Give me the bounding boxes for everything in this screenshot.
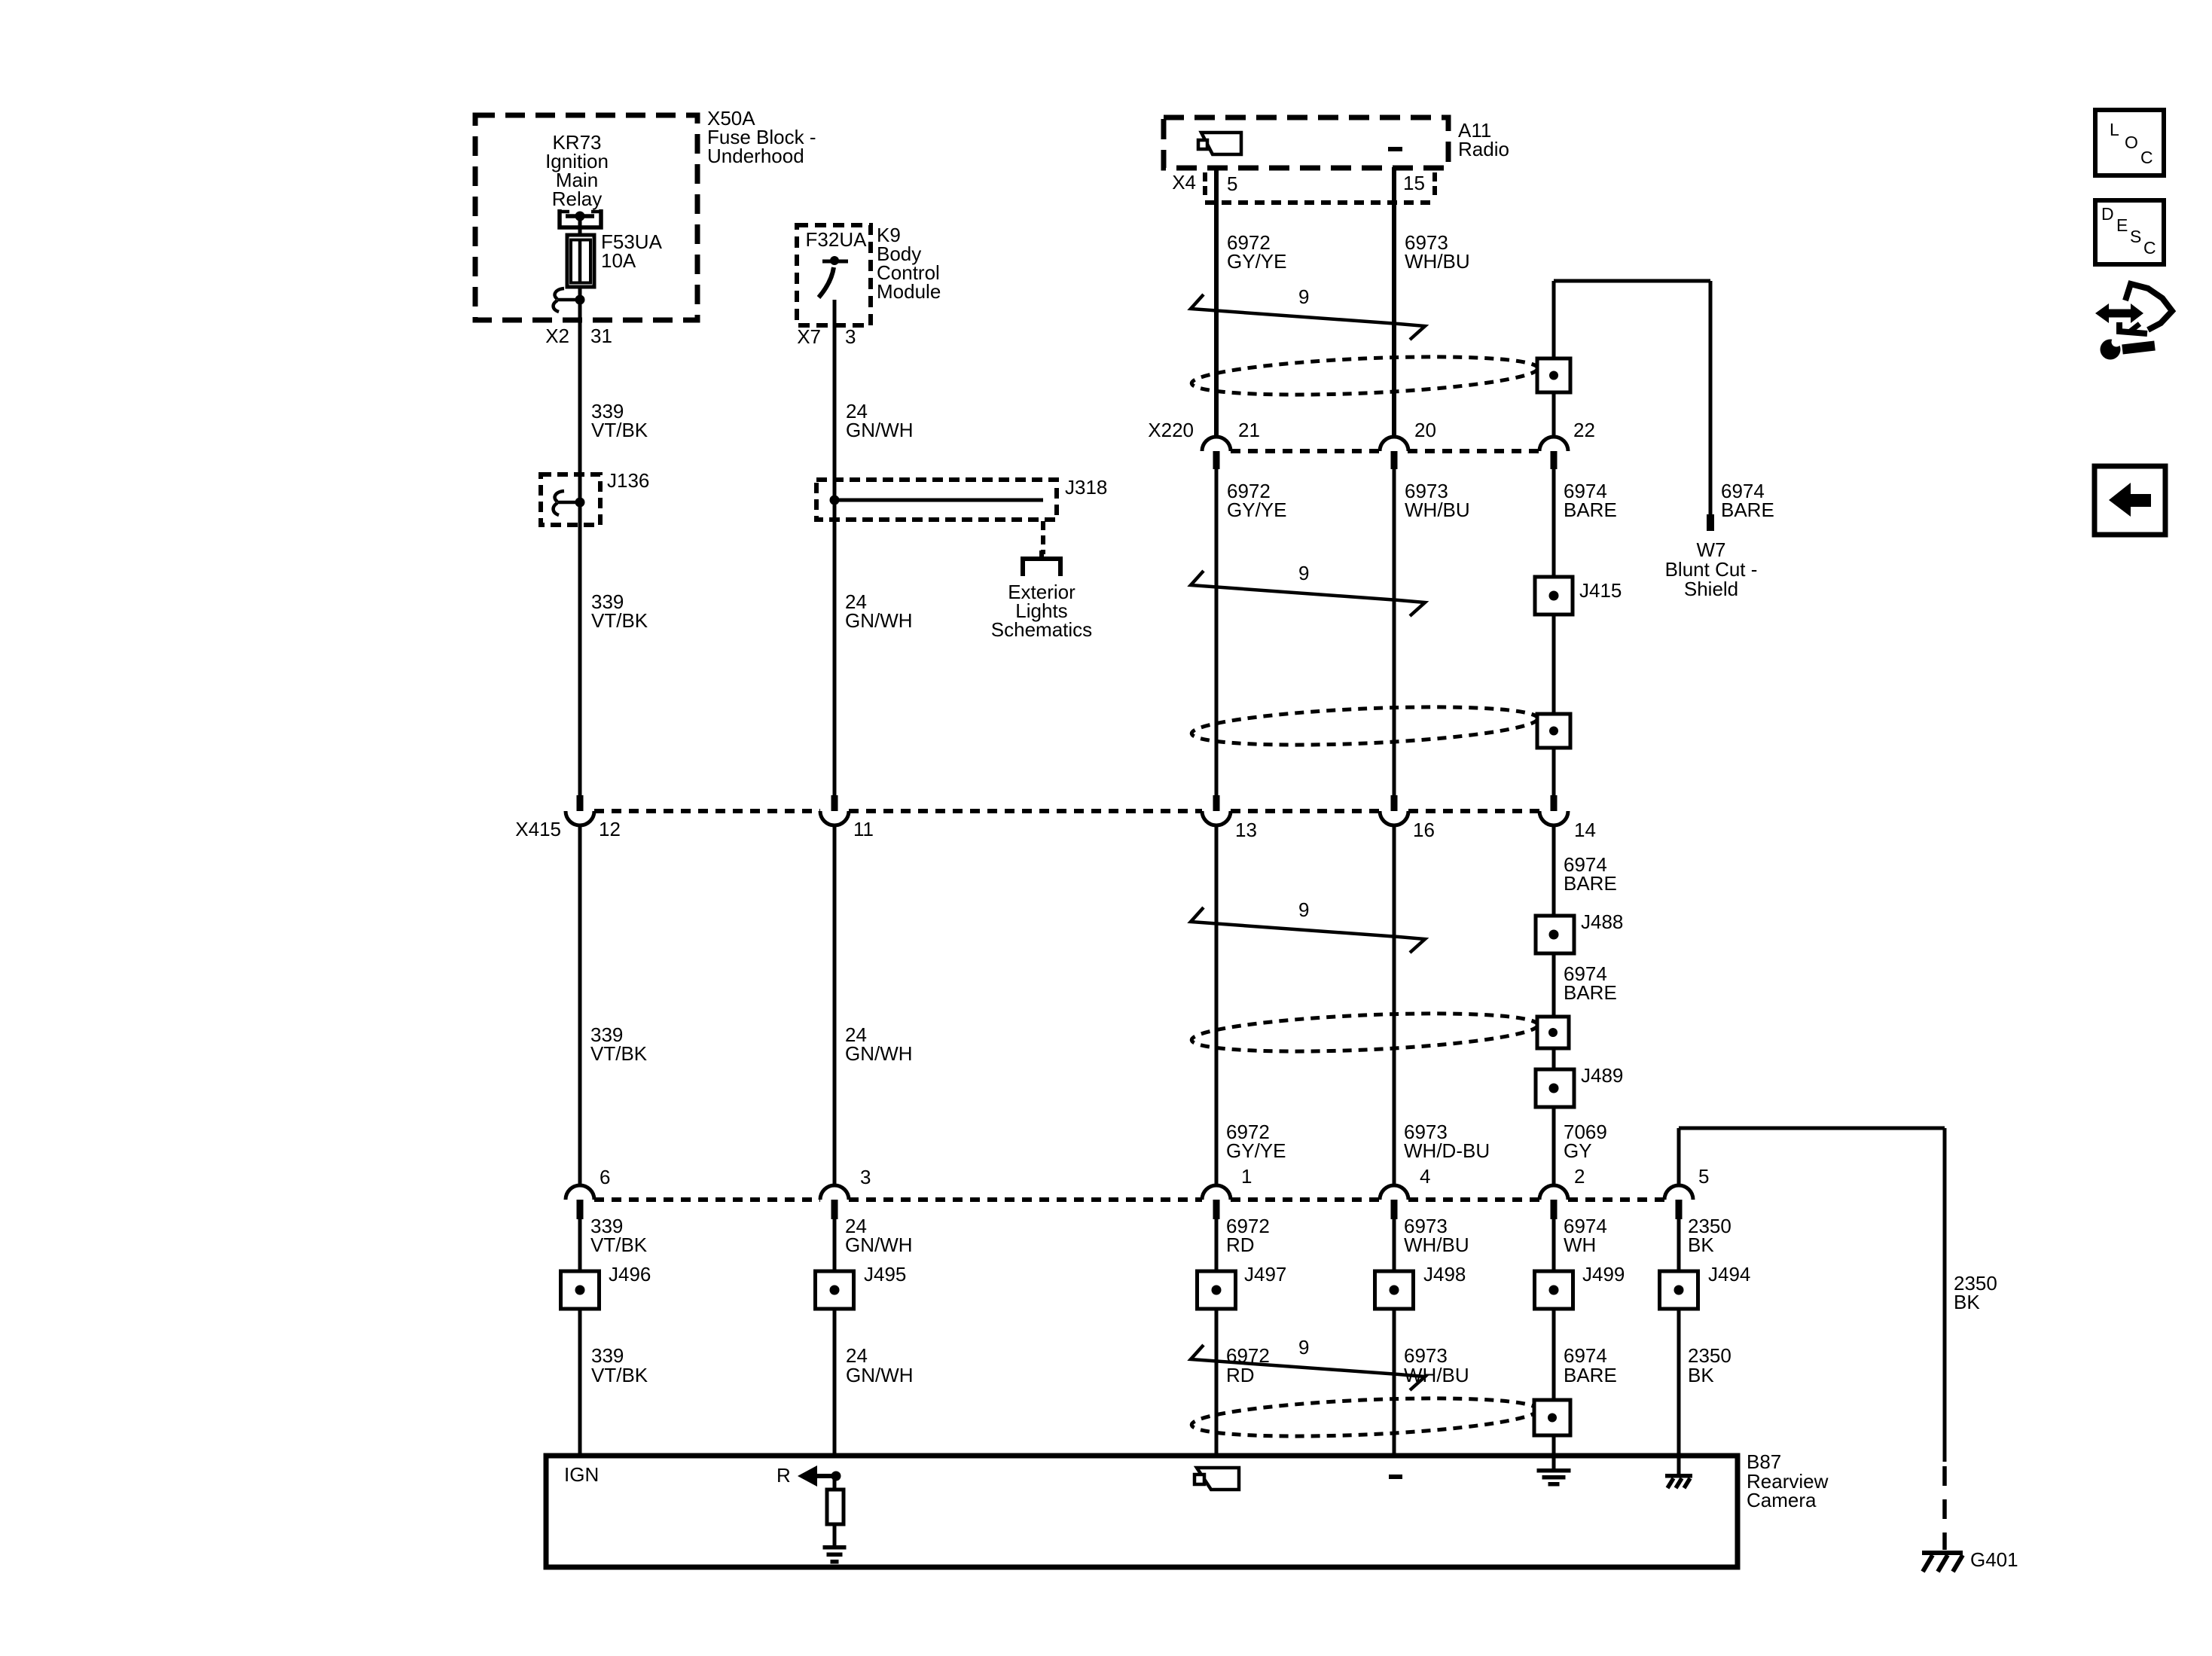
- svg-text:16: 16: [1413, 819, 1435, 841]
- ground terminal (shield) in camera box: [1537, 1456, 1571, 1487]
- label X50A Fuse Block - Underhood: [707, 107, 816, 167]
- svg-text:J496: J496: [609, 1263, 651, 1285]
- svg-text:2: 2: [1574, 1165, 1585, 1188]
- chassis ground terminal in camera box: [1665, 1456, 1692, 1488]
- label F32UA: [806, 228, 868, 251]
- svg-text:GN/WH: GN/WH: [845, 1234, 913, 1256]
- splice J489: [1536, 1069, 1574, 1107]
- wire 6974 BARE shield column 5: [1552, 281, 1556, 1456]
- svg-text:12: 12: [599, 818, 621, 840]
- svg-text:21: 21: [1238, 419, 1260, 441]
- svg-text:1: 1: [1241, 1165, 1252, 1188]
- svg-text:13: 13: [1235, 819, 1257, 841]
- label wire 7069 GY (above row 2): [1564, 1121, 1607, 1162]
- connector row 2 pin 4: [1380, 1185, 1408, 1219]
- shield tap box 2: [1537, 714, 1570, 748]
- svg-text:J136: J136: [607, 469, 649, 492]
- label wire 6974 BARE (below J488): [1564, 962, 1617, 1004]
- BCM fuse F32UA (dashed box): [797, 225, 871, 325]
- splice J415: [1535, 577, 1573, 615]
- label J495: [864, 1263, 906, 1285]
- connector row 2 pin 1: [1202, 1185, 1231, 1219]
- svg-text:6: 6: [600, 1166, 610, 1188]
- back arrow legend box: [2095, 466, 2165, 535]
- pin 3 label: [860, 1166, 871, 1188]
- label wire 2350 BK (below pin 5): [1688, 1215, 1731, 1256]
- svg-text:GY/YE: GY/YE: [1227, 250, 1286, 273]
- svg-text:X220: X220: [1148, 419, 1194, 441]
- label G401: [1970, 1548, 2018, 1571]
- svg-text:10A: 10A: [601, 249, 636, 272]
- svg-text:BK: BK: [1688, 1234, 1714, 1256]
- R input arrow and junction: [798, 1465, 841, 1490]
- label X4: [1172, 171, 1196, 194]
- label W7 Blunt Cut - Shield: [1665, 538, 1758, 600]
- label J496: [609, 1263, 651, 1285]
- label 6974 BARE (upper left of W7): [1564, 480, 1617, 521]
- label J498: [1423, 1263, 1466, 1285]
- pin 16 label: [1413, 819, 1435, 841]
- label wire 6972 GY/YE (below X220): [1227, 480, 1286, 521]
- svg-text:J489: J489: [1581, 1064, 1623, 1087]
- splice J499: [1535, 1271, 1573, 1309]
- label 9 (twisted pair 1): [1298, 285, 1309, 308]
- connector row 2 pin 5: [1664, 1185, 1693, 1219]
- ground symbol under resistor: [823, 1524, 847, 1564]
- svg-text:3: 3: [845, 325, 856, 348]
- svg-text:X2: X2: [545, 325, 569, 347]
- label 9 (twisted pair 4): [1298, 1336, 1309, 1359]
- svg-text:D: D: [2101, 204, 2114, 224]
- pin 6 label: [600, 1166, 610, 1188]
- minus terminal in radio box: [1388, 147, 1402, 151]
- svg-text:BARE: BARE: [1564, 1364, 1617, 1386]
- splice J318 (dashed box): [816, 480, 1057, 520]
- rearview camera B87 (box): [546, 1456, 1738, 1567]
- svg-text:Underhood: Underhood: [707, 145, 804, 167]
- svg-text:GY/YE: GY/YE: [1227, 499, 1286, 521]
- label wire 6973 WH/D-BU (above row 2): [1404, 1121, 1490, 1162]
- wire shield drain to W7 blunt cut: [1554, 281, 1714, 531]
- svg-text:J495: J495: [864, 1263, 906, 1285]
- camera icon in radio box: [1198, 133, 1241, 154]
- svg-text:E: E: [2116, 215, 2128, 235]
- label X415: [515, 818, 561, 840]
- pin 4 label: [1420, 1165, 1430, 1188]
- svg-text:Radio: Radio: [1458, 138, 1509, 160]
- svg-text:31: 31: [590, 325, 612, 347]
- svg-text:9: 9: [1298, 562, 1309, 584]
- wire 2350 BK column 6 (camera ground): [1677, 1128, 1681, 1456]
- connector X220 pin 20: [1380, 437, 1408, 469]
- relay KR73 contact symbol: [560, 209, 601, 236]
- shield tap box 4: [1534, 1400, 1570, 1435]
- label IGN terminal: [564, 1463, 599, 1486]
- label J499: [1582, 1263, 1625, 1285]
- connector X220 dashed line: [1231, 449, 1540, 453]
- repair icon (arrows and wrench): [2095, 284, 2172, 360]
- label wire 6974 BARE (below J499): [1564, 1344, 1617, 1386]
- pin 22 label: [1573, 419, 1595, 441]
- twisted pair symbol 4: [1191, 1345, 1425, 1390]
- label wire 24 GN/WH (above J318): [846, 400, 914, 441]
- label J494: [1708, 1263, 1750, 1285]
- label wire 2350 BK (right branch): [1954, 1272, 1997, 1313]
- label wire 24 GN/WH (below J318): [845, 590, 913, 632]
- connector row 2 pin 6: [566, 1185, 594, 1219]
- clip at fuse block output: [554, 288, 585, 312]
- svg-text:Camera: Camera: [1747, 1489, 1817, 1511]
- svg-text:3: 3: [860, 1166, 871, 1188]
- svg-text:20: 20: [1414, 419, 1436, 441]
- wire 6973 column 4 (camera video -): [1392, 167, 1396, 1456]
- label wire 6972 GY/YE (below X4): [1227, 231, 1286, 273]
- label X2 pin 31: [545, 325, 612, 347]
- minus terminal in camera box: [1389, 1475, 1402, 1479]
- label KR73 Ignition Main Relay: [545, 131, 609, 210]
- svg-text:BARE: BARE: [1564, 981, 1617, 1004]
- label wire 6973 WH/BU (below pin 4): [1404, 1215, 1469, 1256]
- svg-text:14: 14: [1574, 819, 1596, 841]
- svg-text:RD: RD: [1226, 1364, 1255, 1386]
- label A11 Radio: [1458, 119, 1509, 160]
- label J489: [1581, 1064, 1623, 1087]
- label wire 6972 RD (below pin 1): [1226, 1215, 1270, 1256]
- label wire 24 GN/WH (below pin 3): [845, 1215, 913, 1256]
- pin 12 label: [599, 818, 621, 840]
- label wire 24 GN/WH (below X415): [845, 1023, 913, 1065]
- svg-text:VT/BK: VT/BK: [591, 1364, 648, 1386]
- label wire 6972 GY/YE (above row 2): [1226, 1121, 1286, 1162]
- connector X220 pin 21: [1202, 437, 1231, 469]
- pin 15 label: [1403, 172, 1425, 194]
- svg-text:GN/WH: GN/WH: [846, 1364, 914, 1386]
- svg-text:O: O: [2125, 133, 2138, 152]
- label wire 6973 WH/BU (below X220): [1405, 480, 1470, 521]
- svg-text:4: 4: [1420, 1165, 1430, 1188]
- connector X415 dashed line: [594, 809, 1540, 813]
- pin 5 label: [1227, 172, 1237, 195]
- label J488: [1581, 910, 1623, 933]
- resistor in camera box: [827, 1490, 844, 1524]
- svg-text:VT/BK: VT/BK: [590, 1234, 648, 1256]
- label J318: [1065, 476, 1107, 499]
- twisted pair symbol 1: [1191, 294, 1425, 340]
- splice J495: [816, 1271, 854, 1309]
- radio A11 (dashed box): [1164, 117, 1448, 168]
- connector X4 (radio harness): [1205, 172, 1436, 203]
- svg-text:9: 9: [1298, 1336, 1309, 1359]
- label X7 pin 3: [797, 325, 856, 348]
- splice J498: [1375, 1271, 1414, 1309]
- svg-text:WH: WH: [1564, 1234, 1596, 1256]
- label wire 6973 WH/BU (below J498): [1404, 1344, 1469, 1386]
- splice J497: [1198, 1271, 1236, 1309]
- shield ellipse 4 (dashed): [1191, 1392, 1539, 1442]
- shield ellipse 2 (dashed): [1191, 701, 1539, 751]
- svg-text:BARE: BARE: [1564, 872, 1617, 895]
- label wire 339 VT/BK (below X415): [590, 1023, 648, 1065]
- label wire 2350 BK (below J494): [1688, 1344, 1731, 1386]
- svg-text:X7: X7: [797, 325, 821, 348]
- svg-text:BARE: BARE: [1564, 499, 1617, 521]
- svg-text:J499: J499: [1582, 1263, 1625, 1285]
- junction dot and branch in J318: [830, 496, 1044, 505]
- svg-text:WH/BU: WH/BU: [1404, 1234, 1469, 1256]
- wire 2350 BK to G401: [1679, 1128, 1945, 1550]
- svg-text:GY: GY: [1564, 1139, 1592, 1162]
- svg-text:Module: Module: [877, 280, 941, 303]
- pin 21 label: [1238, 419, 1260, 441]
- connector X415 pin 12: [566, 795, 594, 825]
- label wire 6973 WH/BU (below X4): [1405, 231, 1470, 273]
- wire 339 VT/BK column 1 (ignition feed): [578, 216, 582, 1456]
- svg-text:C: C: [2140, 148, 2153, 167]
- svg-text:Schematics: Schematics: [991, 618, 1092, 641]
- svg-text:RD: RD: [1226, 1234, 1255, 1256]
- pin 14 label: [1574, 819, 1596, 841]
- label J415: [1579, 579, 1622, 602]
- label J497: [1244, 1263, 1286, 1285]
- svg-text:G401: G401: [1970, 1548, 2018, 1571]
- label wire 339 VT/BK (below J136): [591, 590, 648, 632]
- clip symbol in J136: [554, 491, 585, 515]
- svg-text:S: S: [2130, 227, 2141, 246]
- pin 13 label: [1235, 819, 1257, 841]
- pin 20 label: [1414, 419, 1436, 441]
- wire 6972 column 3 (camera video +): [1214, 167, 1219, 1456]
- svg-text:J494: J494: [1708, 1263, 1750, 1285]
- svg-text:VT/BK: VT/BK: [590, 1042, 648, 1065]
- splice J488: [1536, 916, 1574, 953]
- svg-text:J318: J318: [1065, 476, 1107, 499]
- svg-text:9: 9: [1298, 285, 1309, 308]
- label wire 6974 WH (below pin 2): [1564, 1215, 1607, 1256]
- label Exterior Lights Schematics: [991, 581, 1092, 641]
- wire 24 GN/WH column 2 (reverse signal): [833, 300, 837, 1456]
- shield tap box 3: [1537, 1017, 1569, 1048]
- svg-text:IGN: IGN: [564, 1463, 599, 1486]
- svg-text:L: L: [2110, 120, 2119, 139]
- ground G401 chassis symbol: [1922, 1551, 1963, 1572]
- connector row 2 pin 2: [1539, 1185, 1568, 1219]
- svg-text:9: 9: [1298, 898, 1309, 921]
- shield tap box 1: [1537, 358, 1570, 392]
- svg-text:X4: X4: [1172, 171, 1196, 194]
- svg-text:J488: J488: [1581, 910, 1623, 933]
- pin 2 label: [1574, 1165, 1585, 1188]
- label wire 6974 BARE (below X415): [1564, 853, 1617, 895]
- svg-text:WH/BU: WH/BU: [1405, 250, 1470, 273]
- label wire 339 VT/BK (below J496): [591, 1344, 648, 1386]
- label wire 6972 RD (below J497): [1226, 1344, 1270, 1386]
- label F53UA 10A: [601, 230, 663, 272]
- svg-text:5: 5: [1227, 172, 1237, 195]
- svg-text:GN/WH: GN/WH: [845, 1042, 913, 1065]
- svg-text:J497: J497: [1244, 1263, 1286, 1285]
- svg-text:C: C: [2143, 238, 2156, 258]
- camera icon in camera box: [1194, 1468, 1239, 1490]
- svg-text:22: 22: [1573, 419, 1595, 441]
- pin 11 label: [853, 818, 874, 840]
- label 6974 BARE (right of W7 wire): [1721, 480, 1774, 521]
- shield ellipse 1 (dashed): [1191, 351, 1539, 401]
- connector X415 pin 16: [1380, 795, 1408, 825]
- BCM driver switch symbol: [819, 256, 848, 297]
- label K9 Body Control Module: [877, 224, 941, 303]
- svg-text:Relay: Relay: [552, 188, 602, 210]
- pin 5 label: [1698, 1165, 1709, 1188]
- connector X220 pin 22: [1539, 437, 1568, 469]
- off-page link to exterior lights: [1023, 521, 1060, 576]
- svg-text:J415: J415: [1579, 579, 1622, 602]
- svg-text:GN/WH: GN/WH: [845, 609, 913, 632]
- label wire 24 GN/WH (below J495): [846, 1344, 914, 1386]
- twisted pair symbol 3: [1191, 907, 1425, 953]
- svg-text:R: R: [776, 1464, 791, 1487]
- svg-text:WH/D-BU: WH/D-BU: [1404, 1139, 1490, 1162]
- svg-text:WH/BU: WH/BU: [1405, 499, 1470, 521]
- svg-text:VT/BK: VT/BK: [591, 419, 648, 441]
- pin 1 label: [1241, 1165, 1252, 1188]
- svg-text:BARE: BARE: [1721, 499, 1774, 521]
- fuse F53UA 10A: [567, 235, 594, 287]
- label B87 Rearview Camera: [1747, 1450, 1829, 1511]
- svg-text:VT/BK: VT/BK: [591, 609, 648, 632]
- svg-text:11: 11: [853, 818, 874, 840]
- splice J494: [1660, 1271, 1698, 1309]
- connector row 2 dashed line: [594, 1197, 1665, 1202]
- svg-text:GN/WH: GN/WH: [846, 419, 914, 441]
- label J136: [607, 469, 649, 492]
- splice J496: [561, 1271, 600, 1309]
- splice J136 (dashed box): [541, 474, 600, 525]
- fuse block X50A (dashed box): [475, 115, 697, 320]
- label 9 (twisted pair 3): [1298, 898, 1309, 921]
- connector X415 pin 11: [820, 795, 849, 825]
- DESC legend box: [2095, 200, 2164, 264]
- label wire 339 VT/BK (below pin 6): [590, 1215, 648, 1256]
- svg-text:GY/YE: GY/YE: [1226, 1139, 1286, 1162]
- svg-text:X415: X415: [515, 818, 561, 840]
- svg-text:15: 15: [1403, 172, 1425, 194]
- shield ellipse 3 (dashed): [1191, 1008, 1539, 1057]
- label X220: [1148, 419, 1194, 441]
- svg-text:J498: J498: [1423, 1263, 1466, 1285]
- svg-text:BK: BK: [1954, 1291, 1980, 1313]
- connector X415 pin 13: [1202, 795, 1231, 825]
- svg-text:BK: BK: [1688, 1364, 1714, 1386]
- svg-text:F32UA: F32UA: [806, 228, 868, 251]
- LOC legend box: [2095, 110, 2164, 175]
- connector row 2 pin 3: [820, 1185, 849, 1219]
- svg-text:5: 5: [1698, 1165, 1709, 1188]
- label wire 339 VT/BK (above J136): [591, 400, 648, 441]
- twisted pair symbol 2: [1191, 571, 1425, 616]
- svg-text:Shield: Shield: [1684, 578, 1738, 600]
- connector X415 pin 14: [1539, 795, 1568, 825]
- label R terminal: [776, 1464, 791, 1487]
- label 9 (twisted pair 2): [1298, 562, 1309, 584]
